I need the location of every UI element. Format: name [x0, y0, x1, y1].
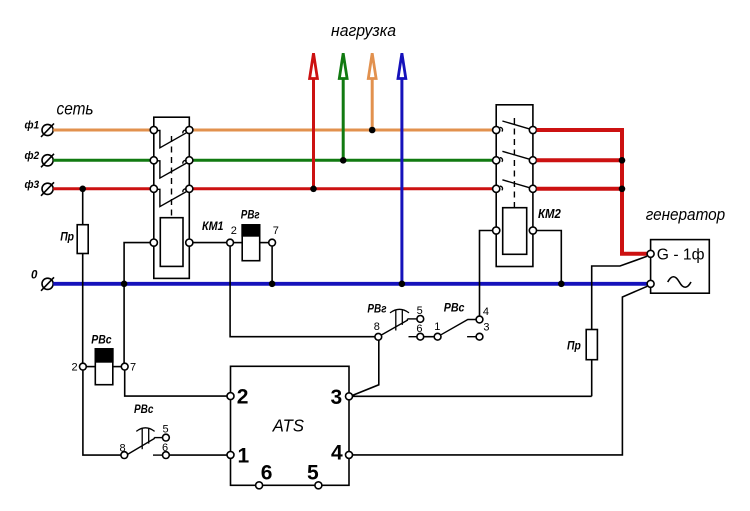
junction dot on 0 bus — [121, 281, 128, 288]
load arrow red (to ф3) — [310, 53, 318, 189]
junction dot orange arrow on ф1 — [369, 127, 376, 134]
KM2 pole 2 blade — [502, 151, 529, 159]
junction dot pole3 on bus — [619, 186, 626, 193]
terminal ф2 — [25, 150, 55, 167]
KM1 pole 1 contacts — [150, 126, 157, 133]
svg-text:2: 2 — [72, 362, 78, 374]
KM2 aux contact left — [493, 227, 500, 234]
svg-text:0: 0 — [31, 270, 38, 282]
fuse Пр right — [586, 330, 597, 397]
svg-text:2: 2 — [237, 385, 249, 408]
KM2 dashed linkage — [513, 118, 515, 208]
svg-text:1: 1 — [434, 321, 440, 333]
terminal ф1 — [25, 119, 55, 137]
svg-text:РВс: РВс — [444, 301, 465, 315]
generator terminal lower — [647, 280, 654, 287]
KM2 aux contact right — [529, 227, 536, 234]
parachute dome — [390, 309, 409, 313]
wire KM1 aux right to РВг coil pin 2 — [193, 242, 227, 244]
KM1 aux contact right — [186, 239, 193, 246]
KM1 pole 3 blade — [157, 189, 186, 206]
relay coil РВс left — [72, 333, 137, 385]
ATS terminal 4 — [331, 441, 353, 464]
timed contact РВс left group — [120, 424, 170, 459]
wire 0 neutral bus (blue) — [53, 282, 647, 286]
svg-text:РВг: РВг — [241, 208, 260, 222]
ATS box — [231, 366, 350, 485]
parachute lines — [395, 310, 397, 331]
contact РВс right group — [434, 306, 489, 340]
wire generator bus pole1 (red) — [537, 130, 648, 254]
KM2 pole 1 contacts — [493, 126, 500, 133]
contactor KM1 — [150, 117, 193, 278]
svg-text:ATS: ATS — [272, 415, 304, 435]
relay coil РВг — [227, 208, 279, 261]
wire РВс2 down to contact 8 feed — [83, 370, 121, 455]
blade from 1 to 4 — [441, 320, 476, 335]
wire ф3 mid segment (red) — [193, 187, 493, 190]
timed contact РВг group — [374, 305, 424, 340]
svg-text:ф3: ф3 — [25, 179, 40, 191]
KM2 pole 3 contacts — [493, 185, 500, 192]
ATS terminal 3 — [331, 386, 353, 409]
svg-text:7: 7 — [130, 362, 136, 374]
svg-text:6: 6 — [261, 462, 273, 485]
svg-text:РВс: РВс — [134, 402, 154, 416]
junction dot red arrow on ф3 — [310, 186, 317, 193]
KM2 pole 1 blade — [502, 121, 529, 129]
KM2 coil — [503, 208, 527, 255]
wire ф3 network segment (red) — [53, 187, 150, 190]
svg-text:Пр: Пр — [567, 341, 581, 353]
junction dot pole2 on bus — [619, 157, 626, 164]
junction dot fuse tap on ф3 — [79, 186, 86, 193]
KM1 pole 2 blade — [157, 161, 186, 178]
terminal 0 — [31, 270, 54, 291]
svg-text:КМ2: КМ2 — [538, 206, 561, 221]
svg-text:КМ1: КМ1 — [202, 219, 224, 233]
KM1 aux contact left — [150, 239, 157, 246]
wire generator bus pole2 (red) — [537, 158, 623, 162]
ATS terminal 1 — [227, 445, 250, 468]
junction dot РВг7 on 0 bus — [269, 281, 276, 288]
KM1 pole 3 contacts — [150, 185, 157, 192]
wire fuse right to ATS terminal 3 — [353, 395, 592, 397]
svg-text:сеть: сеть — [57, 99, 94, 119]
blade — [128, 438, 155, 455]
wire ф2 network segment (green) — [53, 159, 150, 162]
svg-text:3: 3 — [331, 386, 343, 409]
parachute lines — [141, 428, 143, 450]
KM1 dashed linkage — [171, 136, 173, 218]
junction dot blue arrow on 0 — [399, 281, 406, 288]
KM1 coil — [160, 218, 183, 267]
wire KM2 aux right to 0 bus — [537, 231, 562, 284]
terminal ф3 — [25, 179, 55, 196]
svg-text:РВг: РВг — [367, 302, 386, 316]
KM2 pole 3 blade — [502, 180, 529, 188]
wire KM1 aux left to 0 bus and РВс coil 7 — [124, 243, 150, 364]
svg-text:ф2: ф2 — [25, 150, 40, 162]
parachute dome — [136, 428, 154, 432]
svg-text:генератор: генератор — [646, 205, 726, 224]
blade — [381, 319, 407, 335]
wire generator bus pole3 (red) — [537, 187, 623, 191]
wire РВс7 down then right to ATS terminal 2 — [125, 370, 227, 396]
svg-text:РВс: РВс — [91, 333, 111, 347]
wire generator lower to ATS terminal 4 — [353, 286, 648, 455]
contactor KM2 — [493, 105, 537, 267]
junction dot KM2 aux on 0 bus — [558, 281, 565, 288]
svg-text:нагрузка: нагрузка — [331, 22, 396, 40]
svg-text:G - 1ф: G - 1ф — [657, 246, 705, 263]
KM1 pole 1 blade — [157, 131, 186, 148]
wire РВг6 to РВс1 — [424, 336, 435, 338]
junction dot green arrow on ф2 — [340, 157, 347, 164]
svg-text:Пр: Пр — [60, 232, 74, 244]
KM2 pole 2 contacts — [493, 157, 500, 164]
wire generator upper to fuse Пр right — [592, 256, 647, 329]
svg-text:7: 7 — [273, 225, 279, 237]
KM1 pole 2 contacts — [150, 157, 157, 164]
svg-text:5: 5 — [307, 462, 319, 485]
svg-text:4: 4 — [331, 441, 343, 464]
stub to contact 5 — [154, 437, 162, 439]
load arrow blue (to 0) — [398, 53, 406, 284]
ATS terminal 6 — [256, 462, 273, 489]
load arrow orange (to ф1) — [368, 53, 376, 130]
wire ф2 mid segment (green) — [193, 159, 493, 162]
wire ф1 network segment (orange) — [53, 129, 150, 132]
svg-text:1: 1 — [238, 445, 250, 468]
wire ф1 mid segment KM1 to KM2 (orange) — [193, 129, 493, 132]
stub to contact 5 — [407, 318, 417, 320]
ATS terminal 2 — [227, 385, 248, 408]
svg-text:2: 2 — [231, 225, 237, 237]
load arrow green (to ф2) — [339, 53, 347, 160]
svg-text:4: 4 — [483, 306, 489, 318]
generator terminal upper — [647, 250, 654, 257]
wire contact 6 to ATS terminal 1 — [169, 454, 227, 456]
sine symbol — [668, 277, 691, 288]
svg-text:ф1: ф1 — [25, 119, 40, 131]
svg-text:3: 3 — [483, 322, 489, 334]
wire РВг8 down and diagonal to ATS terminal 3 — [352, 340, 379, 395]
generator box G-1ф — [647, 240, 709, 294]
wire РВс4 up to KM2 aux left — [480, 231, 493, 317]
ATS terminal 5 — [307, 462, 322, 489]
fuse Пр left — [77, 189, 88, 363]
wire РВг pin 2 down and right to РВг contact 8 — [230, 246, 375, 337]
wire РВг pin 7 to 0 bus — [271, 246, 273, 284]
svg-text:8: 8 — [374, 321, 380, 333]
